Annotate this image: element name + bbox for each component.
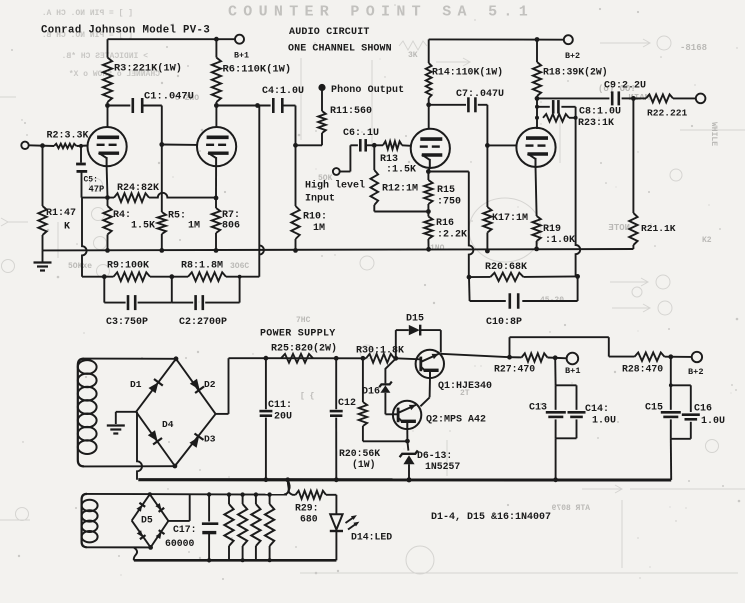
wire C13/C14 to bus [555,438,557,480]
resistor R20 68K (feedback) [469,276,490,278]
capacitor C14 1.0U [576,385,578,410]
wire bridge minus to ground [116,411,136,413]
wire tube2 grid vertical / R5 column [161,106,163,145]
resistor R17 1M [486,145,488,207]
wire PSU top rail [229,357,367,359]
wire cathode to feedback loop with hop over bus [428,171,468,173]
wire C3/C2 row [103,277,105,303]
resistor R30 1.8K [366,354,394,363]
resistor R5 1M [158,212,166,234]
svg-text:D2: D2 [204,379,216,390]
node tube1 plate junction [105,103,110,108]
svg-text:D1: D1 [130,379,142,390]
svg-text:1M: 1M [313,223,325,234]
svg-text:D16: D16 [362,387,380,398]
svg-text:COUNTER POINT SA 5.1: COUNTER POINT SA 5.1 [228,4,534,21]
svg-text:Phono Output: Phono Output [331,84,404,96]
rectifier bridge D1-D4 diamond [136,359,176,412]
svg-text:D5: D5 [141,515,153,526]
wire lower rail right end to bus [284,480,289,495]
node C12 tap [334,356,339,361]
capacitor C2 2700P [172,302,193,304]
capacitor C7 .047U [429,104,466,106]
svg-text:B+2: B+2 [688,367,703,377]
wire C4 to phono column [282,105,295,107]
resistor R6 110K [215,39,217,57]
wire B+2 upper branch [509,337,511,357]
svg-text:High level: High level [305,180,365,192]
capacitor C13 [554,358,556,386]
svg-text:1N5257: 1N5257 [425,461,460,472]
svg-text:C1:.047U: C1:.047U [144,91,194,103]
svg-text:1M: 1M [188,221,200,232]
wire feedback right column hop over bus [259,106,264,277]
terminal phono output dot [318,84,325,91]
svg-text:D14:LED: D14:LED [351,532,392,543]
svg-text:R10:: R10: [303,212,327,223]
wire plate1 to C1 [108,105,131,107]
svg-text:R29:: R29: [295,503,319,514]
node tube2 plate junction [214,103,219,108]
svg-text:1NO: 1NO [430,244,445,253]
wire B+1 top rail [108,38,235,40]
svg-text:ATR 8079: ATR 8079 [551,504,590,513]
svg-text:R15: R15 [437,185,455,196]
svg-text:R4:: R4: [113,210,131,221]
svg-text:C6:.1U: C6:.1U [343,128,379,139]
svg-text:R23:1K: R23:1K [578,118,614,129]
svg-text:R2:3.3K: R2:3.3K [47,131,89,142]
svg-text:R1:47: R1:47 [46,208,76,219]
svg-text:Q1:HJE340: Q1:HJE340 [438,381,492,392]
wire C1 to grid2 corner [142,105,162,107]
resistor R26 56K (1W) [362,358,364,402]
svg-text:C2:2700P: C2:2700P [179,317,227,328]
LED D14 [335,495,337,514]
wire tube4 cathode / R19 column [536,167,537,217]
svg-text:D4: D4 [162,419,174,430]
wire Q1 emitter to Q2 collector [429,378,431,398]
svg-text:R18:39K(2W): R18:39K(2W) [543,67,608,78]
capacitor C9 2.2U [611,91,614,105]
node B+2 branch tap [507,355,512,360]
svg-text:B+2: B+2 [565,51,580,61]
svg-text:C9:2.2U: C9:2.2U [604,81,646,92]
node D5 top corner [148,492,152,496]
node bridge bottom corner [173,464,178,469]
wire tube3 plate lead [428,105,430,129]
LED arrows [346,517,355,523]
wire input to R2 [29,144,54,147]
svg-text:R25:820(2W): R25:820(2W) [271,343,337,355]
wire T1 top to bridge [84,358,176,360]
svg-text:60000: 60000 [165,538,195,549]
resistor R3 221K [107,39,109,57]
svg-text:C5:: C5: [84,175,98,184]
svg-text:WHILE: WHILE [709,122,718,146]
node C3 left leg [102,274,107,279]
svg-text:C3:750P: C3:750P [106,317,148,328]
wire R2 to grid1 [77,145,89,148]
node feedback tap to R8 [255,103,260,108]
node C15/C16 tap [665,356,692,358]
resistor R1 47K [42,146,44,206]
diode D4 [148,430,158,441]
wire D5 plus riser [168,520,189,522]
node C8 tap [535,105,539,109]
wire tube2 plate lead [215,106,217,128]
resistor R2 3.3K [54,144,77,149]
resistor R18 39K [536,40,538,63]
svg-text:D6-13:: D6-13: [417,450,452,461]
wire bridge plus riser [216,413,229,415]
resistor R19 1.0K [532,216,540,241]
svg-text:NOTE: NOTE [608,223,630,233]
svg-text::750: :750 [437,197,461,208]
svg-text:B+1: B+1 [565,366,580,376]
node output line junction [535,96,540,101]
node R23 tap [535,116,539,120]
transformer T2 winding [82,494,87,547]
svg-text:806: 806 [222,221,240,232]
svg-text:C16: C16 [694,404,712,415]
svg-text:1.0U: 1.0U [592,416,616,427]
svg-text:C14:: C14: [585,404,609,415]
svg-text:1.5K: 1.5K [131,221,155,232]
resistor R22 221 [633,97,646,99]
node R5 ground [159,248,164,253]
svg-text:R3:221K(1W): R3:221K(1W) [114,63,182,75]
capacitor C15 [670,357,672,386]
svg-text:B+1: B+1 [234,51,249,61]
capacitor C4 1.0U [272,98,275,113]
svg-text:C15: C15 [645,403,663,414]
resistor R15 750 [427,172,429,181]
node feedback bottom junction R20/C10 left [467,275,472,280]
svg-text::2.2K: :2.2K [437,230,467,241]
node C8/R23 right junction [575,107,577,118]
diode D15 bypass [395,330,397,358]
node tube2 cathode junction [214,196,219,201]
triode V2b [516,128,555,167]
node tube4 grid junction [485,143,490,148]
svg-text:R28:470: R28:470 [622,364,663,375]
svg-text:R5:: R5: [168,211,186,222]
svg-text:C4:1.0U: C4:1.0U [262,86,304,97]
resistor R25 820 [281,354,313,363]
wire tube1 cathode to R4 [106,166,109,198]
svg-text:R13: R13 [380,154,398,165]
capacitor C8 1.0U [537,106,550,108]
svg-text::1.0K: :1.0K [545,235,575,246]
node R20/C10 right junction [575,274,580,279]
wire output line to C9 [537,97,609,99]
wire C2 right riser [239,277,241,303]
svg-text:Q2:MPS A42: Q2:MPS A42 [426,415,486,426]
wire T2 bottom branch to lower rail [134,547,137,560]
node C6/R13/R12 junction [366,144,375,146]
wire C7 to grid4 column [478,104,488,106]
svg-text:3K: 3K [408,51,418,60]
node zener bus [406,477,411,482]
resistor R28 470 [635,353,665,361]
node C11 bus [264,477,269,482]
svg-text:R20:56K: R20:56K [339,448,380,459]
svg-text:R14:110K(1W): R14:110K(1W) [432,67,503,78]
wire T1 bottom to bridge bottom corner [84,465,175,467]
svg-text:C10:8P: C10:8P [486,317,522,328]
capacitor C5 47P [80,146,82,163]
node C11 tap [264,356,269,361]
node R9/R8 junction [150,276,188,278]
node R30 right junction [393,356,398,361]
resistor bank R (4x) top nodes [227,492,231,496]
resistor R13 1.5K [374,144,383,146]
svg-text:K: K [64,222,70,233]
svg-text:> INDICATES CH *B.: > INDICATES CH *B. [62,52,148,61]
node tube3 cathode junction [426,169,431,174]
zener string D6-13 1N5257 [407,441,408,450]
svg-text:R6:110K(1W): R6:110K(1W) [223,64,292,76]
wire high level to C6 [340,171,351,173]
triode V2a [411,129,450,168]
svg-text:R16: R16 [436,218,454,229]
bridge D5 diamond [132,494,150,520]
svg-text:[ ] = PIN NO. CH A.: [ ] = PIN NO. CH A. [42,9,133,18]
transistor Q1 MJE340 [416,350,444,378]
node Q2 emitter junction [405,439,410,444]
diodes in D5 bridge [136,505,142,512]
resistor R12 1M [373,145,375,170]
capacitor C1 .047U [132,98,135,113]
node R11 join [293,143,298,148]
svg-text:D1-4, D15 &16:1N4007: D1-4, D15 &16:1N4007 [431,512,551,523]
svg-text:3O6C: 3O6C [230,262,249,271]
svg-text:R19: R19 [543,224,561,235]
wire lower bottom rail [134,559,337,562]
terminal phono input [21,142,28,149]
node C13/C14 tap [548,357,568,360]
node R18 top [535,37,540,42]
resistor R21 1K [632,98,634,213]
svg-text:C17:: C17: [173,524,197,535]
svg-text::1.5K: :1.5K [386,165,416,176]
transformer T1 secondary winding [78,359,84,467]
node C9/R21 junction [622,97,634,99]
svg-text:POWER SUPPLY: POWER SUPPLY [260,329,336,340]
diode D3 [189,437,199,448]
svg-text:C8:1.0U: C8:1.0U [579,107,621,118]
node bridge top corner [174,356,179,361]
wire R24 row with hop over R5 column [82,197,115,199]
wire R12 to R15/R16 node [374,211,428,213]
wire R11 to phono column [296,144,323,146]
wire ground bus (audio) [43,249,634,250]
svg-text:Input: Input [305,194,335,205]
svg-text:C13: C13 [529,403,547,414]
resistor R7 806 [215,198,217,208]
svg-text:K17:1M: K17:1M [492,213,528,224]
svg-text:R9:100K: R9:100K [107,261,149,272]
svg-text:R11:560: R11:560 [330,106,372,117]
svg-text:R20:68K: R20:68K [485,262,527,273]
capacitor C6 .1U [359,139,362,152]
svg-text:47P: 47P [89,184,105,194]
wire feedback left column hop over bus [82,198,87,277]
svg-text:5OKxe: 5OKxe [68,262,92,271]
capacitor C16 1.0U [690,385,692,412]
resistor R11 560 [321,91,323,112]
wire main negative bus [138,478,671,481]
wire T2 top rail [87,493,287,496]
resistor R23 1K [543,114,569,122]
svg-text:AUDIO CIRCUIT: AUDIO CIRCUIT [289,27,370,38]
wire C15/C16 to bus end [670,439,672,480]
wire tube1 plate lead [107,106,109,128]
node R30 left / 56K tap [361,356,366,361]
svg-text:R8:1.8M: R8:1.8M [181,261,223,272]
diode D2 [190,379,200,390]
wire R9/R8 row [82,276,114,278]
wire bridge minus down to main bus with hop [137,412,142,480]
resistor R8 1.8M [188,272,226,281]
svg-text:R30:1.8K: R30:1.8K [356,346,404,357]
node R14/C7 junction [426,102,431,107]
svg-text:20U: 20U [274,412,292,423]
svg-text:R12:1M: R12:1M [382,184,418,195]
wire phono column vertical [295,106,297,207]
svg-text:R21.1K: R21.1K [641,223,676,234]
node lower rail bus junction [285,477,290,482]
node R12/R15/R16 junction [426,209,431,214]
svg-text:680: 680 [300,514,318,525]
ground symbol [42,250,44,261]
node C12 bus [334,477,339,482]
wire tube2 cathode / R7 column [215,166,217,198]
terminal B+1 (audio) [235,35,244,44]
svg-text:R7:: R7: [222,210,240,221]
capacitor C12 [335,358,337,409]
diode D1 [149,382,159,393]
terminal B+2 (psu) [692,352,702,362]
svg-text:1.0U: 1.0U [701,416,725,427]
node C5 tap [79,144,83,148]
resistor R14 110K [428,39,430,63]
terminal B+2 (audio) [564,35,573,44]
triode V1a [88,127,127,166]
bleed-through left margin notes [42,9,160,79]
svg-text:R24:82K: R24:82K [117,183,159,194]
zener D16 [385,359,395,384]
wire D15 to Q1 collector [440,330,442,352]
svg-text:[ {: [ { [300,392,315,401]
node R6 top junction [214,37,219,42]
wire tube4 plate column [536,98,538,129]
svg-text:7HC: 7HC [296,316,311,325]
capacitor C10 8P [468,277,471,301]
wire T2 bottom [87,546,150,548]
wire B+2 top rail [429,38,564,40]
resistor R4 1.5K [107,198,109,206]
terminal B+1 (psu) [567,353,579,365]
wire Q1 collector output rail [441,354,510,357]
svg-text:K2: K2 [702,236,712,245]
resistor R29 680 [288,480,296,495]
resistor R10 1M [291,206,299,239]
wire Q2 emitter lead [406,429,408,442]
resistor R9 100K [114,272,151,281]
svg-text:D15: D15 [406,314,424,325]
svg-text:Conrad Johnson Model PV-3: Conrad Johnson Model PV-3 [41,25,210,37]
svg-text:C11:: C11: [268,400,292,411]
capacitor C17 60000 [207,492,211,496]
wire R30 to Q1 base [396,358,421,359]
wire tube3 cathode [428,167,429,172]
svg-text:-8168: -8168 [680,43,707,53]
resistor R27 470 [510,356,522,358]
capacitor C11 20U [265,358,267,409]
svg-text:R22.221: R22.221 [647,108,688,119]
svg-text:D3: D3 [204,434,216,445]
capacitor C3 750P [127,295,130,310]
node D5 bottom corner [148,545,153,550]
wire C3/C2 middle riser [171,277,173,303]
svg-text:C12: C12 [338,398,356,409]
svg-text:R27:470: R27:470 [494,364,535,375]
resistor R24 82K [114,193,149,202]
svg-text:C7:.047U: C7:.047U [456,89,504,100]
wire tube2 plate to C4 [216,105,270,107]
node R1 tap [40,143,45,148]
wire 56K bottom to Q2 emitter [363,440,408,442]
resistor R16 2.2K [427,212,429,217]
wire feedback column hop over ground bus [576,118,581,277]
triode V1b [197,127,236,166]
ground symbol (bridge) [107,426,125,434]
svg-text:ONE CHANNEL SHOWN: ONE CHANNEL SHOWN [288,44,392,55]
transistor Q2 MPS A42 [393,401,421,429]
terminal main output [696,94,706,104]
terminal high level input [333,168,340,175]
wire D16 to Q2 base [385,413,397,415]
svg-text:(1W): (1W) [352,459,376,470]
